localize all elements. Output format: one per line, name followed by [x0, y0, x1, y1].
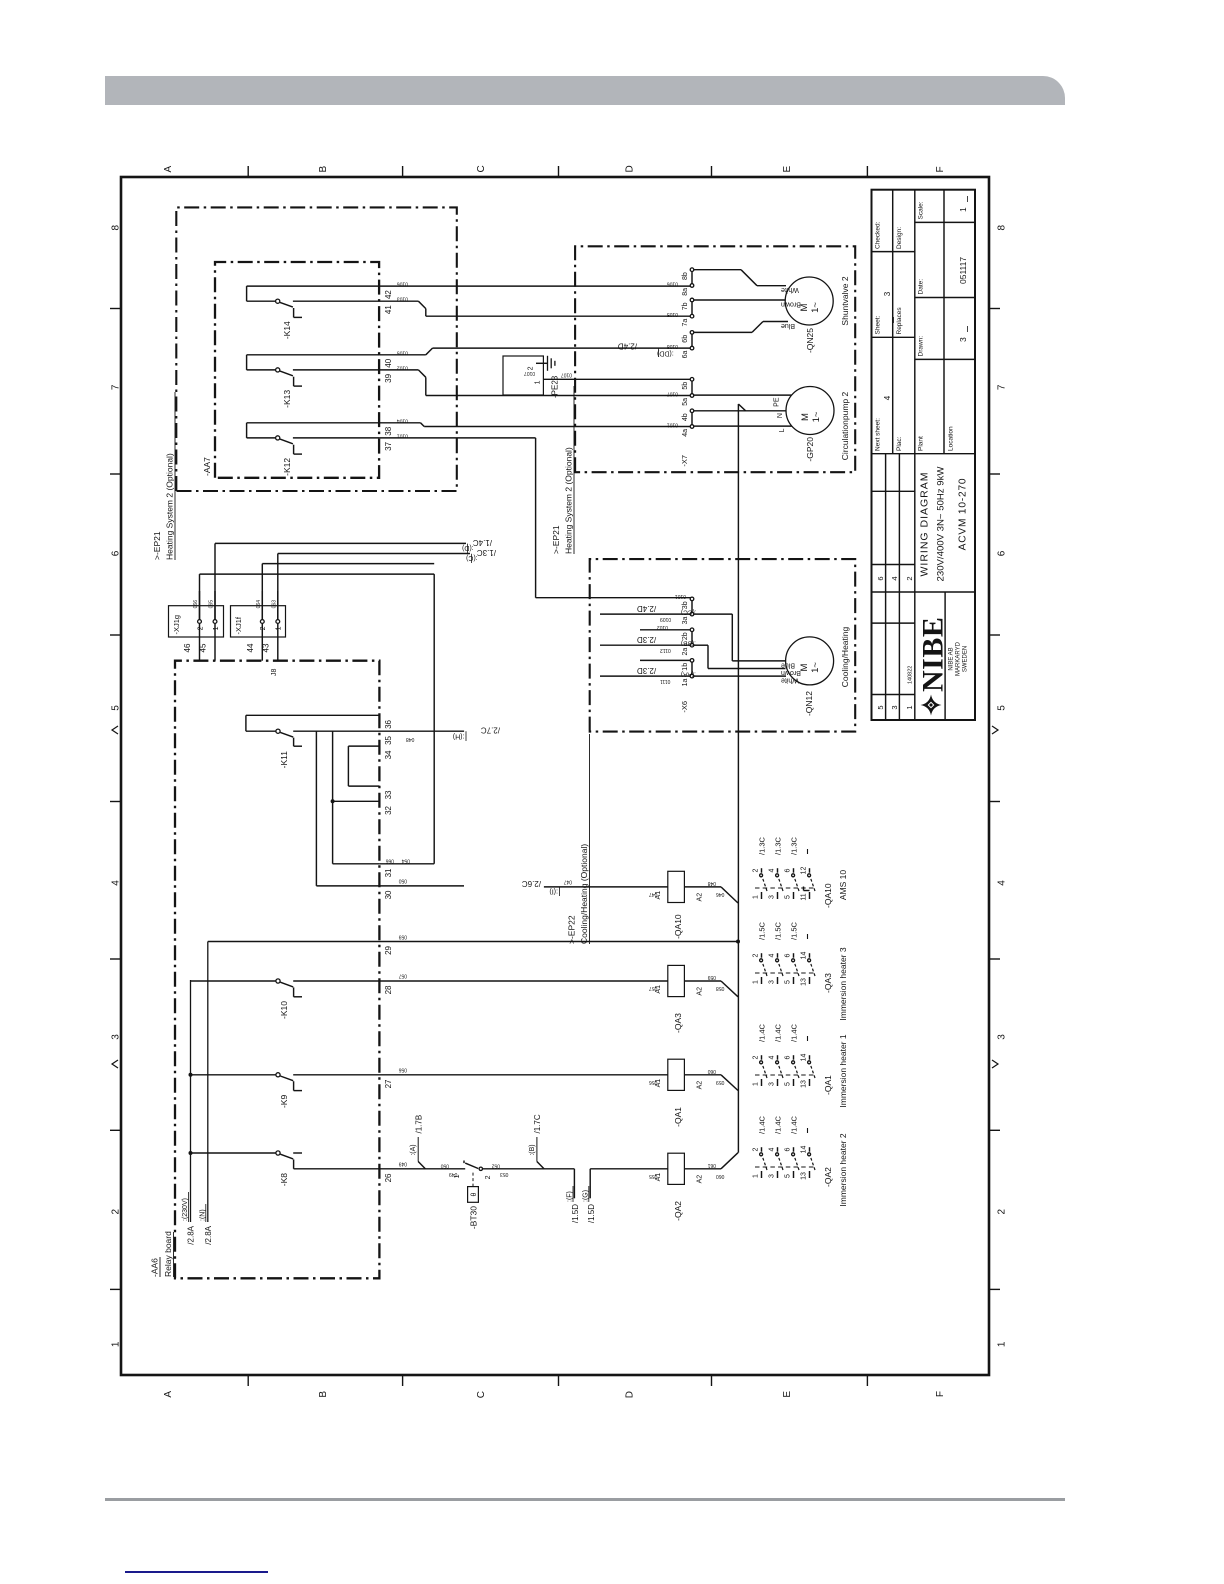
svg-text:1: 1: [752, 895, 759, 899]
svg-text:060: 060: [707, 1068, 716, 1074]
svg-text:4: 4: [768, 1055, 775, 1059]
svg-text:048: 048: [406, 736, 415, 742]
contactor coil -QA3: [668, 965, 685, 996]
svg-text:/1.3C: /1.3C: [757, 836, 766, 855]
contactor coil -QA2: [668, 1153, 685, 1184]
svg-text:051117: 051117: [958, 257, 968, 284]
wire 26 end reference :(F) /1.5D: [573, 1169, 575, 1199]
svg-text:Immersion heater 2: Immersion heater 2: [838, 1133, 848, 1206]
svg-text:4a: 4a: [682, 429, 689, 437]
svg-text:2: 2: [111, 1208, 122, 1214]
svg-text:Cooling/Heating: Cooling/Heating: [840, 626, 850, 687]
terminal pin pair 5a/5b: [690, 394, 694, 398]
svg-text:1: 1: [997, 1341, 1008, 1347]
svg-text:27: 27: [384, 1079, 393, 1088]
svg-text:230V/400V 3N~ 50Hz 9kW: 230V/400V 3N~ 50Hz 9kW: [936, 466, 947, 582]
svg-text:5: 5: [111, 705, 122, 711]
wire :(G) /1.5D to contactor QA2: [589, 1169, 591, 1199]
svg-text:4: 4: [883, 395, 892, 400]
svg-text:PE: PE: [774, 397, 781, 407]
wire 30 down and out of board: [316, 885, 464, 887]
svg-text:θ: θ: [471, 1192, 478, 1196]
svg-text:-QA10: -QA10: [673, 914, 683, 939]
svg-text:M: M: [800, 413, 811, 421]
svg-text:A2: A2: [697, 893, 704, 902]
terminal pin pair 3a/3b: [690, 612, 694, 616]
svg-text:/1.4C: /1.4C: [789, 1115, 798, 1134]
svg-text:Design:: Design:: [896, 227, 903, 249]
svg-text:/1.5C: /1.5C: [789, 921, 798, 940]
svg-text:/1.7B: /1.7B: [415, 1115, 424, 1134]
svg-text:063: 063: [271, 600, 277, 609]
svg-text:6: 6: [997, 550, 1008, 556]
svg-text:2: 2: [485, 1175, 492, 1179]
svg-text:1a: 1a: [682, 679, 689, 687]
svg-text:0101: 0101: [675, 593, 686, 599]
svg-text:-QA1: -QA1: [823, 1075, 833, 1095]
svg-text::(BB): :(BB): [681, 640, 696, 647]
svg-text:7: 7: [997, 384, 1008, 390]
svg-text::(A): :(A): [410, 1144, 417, 1155]
svg-text:44: 44: [246, 643, 255, 652]
svg-text:Blue: Blue: [781, 662, 795, 669]
svg-text:/1.5C: /1.5C: [757, 921, 766, 940]
svg-text:29: 29: [384, 945, 393, 954]
svg-text:0105: 0105: [667, 311, 678, 317]
svg-text:Heating System 2 (Optional): Heating System 2 (Optional): [165, 453, 175, 560]
wire XJ1f pin2 down: [261, 564, 263, 620]
svg-text:36: 36: [384, 719, 393, 728]
svg-text:-XJ1f: -XJ1f: [234, 616, 243, 634]
svg-text:0108: 0108: [667, 343, 678, 349]
svg-text:3: 3: [768, 980, 775, 984]
wire 34: [348, 745, 379, 747]
svg-text:5a: 5a: [682, 398, 689, 406]
-QA10 contact 11-12: [809, 892, 811, 899]
svg-text:0111: 0111: [660, 678, 671, 684]
svg-text:F: F: [935, 1391, 946, 1397]
wire 38 to X7 terminal 4a: [379, 422, 420, 424]
svg-text:-X7: -X7: [680, 455, 689, 467]
svg-text:-K9: -K9: [279, 1095, 289, 1109]
svg-text:066: 066: [193, 600, 199, 609]
thermostat BT30 sensor box: [468, 1187, 479, 1203]
svg-text:31: 31: [384, 868, 393, 877]
svg-text:1: 1: [213, 626, 220, 630]
wire 31 and inner link: [333, 863, 380, 865]
svg-text:Plant: Plant: [918, 436, 925, 451]
svg-text:2: 2: [528, 366, 535, 370]
contactor coil -QA1: [668, 1059, 685, 1090]
relay contact -K8: [191, 1152, 276, 1154]
svg-text:Sheet:: Sheet:: [875, 316, 882, 335]
relay contact -K10: [191, 980, 276, 982]
svg-text:2: 2: [997, 1208, 1008, 1214]
svg-text:35: 35: [384, 735, 393, 744]
svg-text:E: E: [782, 166, 793, 173]
-QA1 contact 5-6: [793, 1079, 795, 1086]
svg-text:Location: Location: [948, 426, 955, 451]
svg-text:Drawn:: Drawn:: [918, 336, 925, 357]
svg-text:White: White: [781, 286, 799, 293]
svg-text:A: A: [163, 1391, 174, 1398]
svg-text:050: 050: [440, 1163, 449, 1169]
svg-text:14: 14: [800, 1054, 807, 1062]
svg-text:7: 7: [111, 384, 122, 390]
svg-text:11: 11: [800, 893, 807, 900]
QA2 A2 drop with bevel: [684, 1168, 721, 1170]
svg-text:-K8: -K8: [279, 1173, 289, 1187]
svg-text:>-EP21: >-EP21: [152, 531, 162, 560]
svg-text:2: 2: [905, 576, 914, 580]
wire 26 from K8 to BT30: [294, 1168, 466, 1170]
svg-text:061: 061: [707, 1162, 716, 1168]
svg-text:2: 2: [197, 626, 204, 630]
svg-text:1: 1: [752, 1082, 759, 1086]
svg-text:Checked:: Checked:: [875, 221, 882, 249]
svg-text:41: 41: [384, 305, 393, 314]
svg-text:4b: 4b: [682, 413, 689, 421]
svg-text:-K12: -K12: [282, 458, 292, 476]
relay board AA6 dash-dot enclosure: [175, 661, 379, 1279]
svg-text:/1.3C: /1.3C: [789, 836, 798, 855]
svg-text:1: 1: [905, 705, 914, 709]
QA10 A2 drop with bevel: [684, 886, 721, 888]
svg-text:-QA3: -QA3: [823, 973, 833, 993]
terminal pin pair 2a/2b: [690, 643, 694, 647]
svg-text:46: 46: [183, 643, 192, 652]
svg-text:J8: J8: [271, 669, 278, 677]
svg-text:-QA2: -QA2: [823, 1167, 833, 1187]
aux contact group -QA1: [755, 1074, 816, 1076]
svg-text:B: B: [318, 1391, 329, 1398]
relay contact -K12: [247, 422, 380, 424]
svg-text:/1.5D: /1.5D: [571, 1204, 580, 1223]
svg-text:-AA6: -AA6: [150, 1258, 160, 1277]
svg-text:5: 5: [876, 705, 885, 709]
svg-text:/1.7C: /1.7C: [533, 1114, 542, 1133]
svg-text:/2.8A: /2.8A: [204, 1225, 213, 1244]
svg-text:6: 6: [784, 953, 791, 957]
svg-text:-BT30: -BT30: [469, 1206, 479, 1229]
fold marks: [992, 1060, 998, 1068]
svg-text:42: 42: [384, 290, 393, 299]
svg-text:A2: A2: [697, 1081, 704, 1090]
EP22 cooling/heating dash-dot enclosure: [590, 559, 856, 732]
svg-text:8: 8: [997, 224, 1008, 230]
svg-text:-K10: -K10: [279, 1001, 289, 1019]
page header grey bar: [105, 76, 1065, 105]
junction dot A2 return at wire 29: [736, 940, 740, 944]
svg-text:L: L: [779, 428, 786, 432]
svg-text:6a: 6a: [682, 351, 689, 359]
A2 return wire to N and pump: [737, 404, 739, 1153]
svg-text:065: 065: [209, 600, 215, 609]
NIBE logo: [921, 695, 942, 716]
svg-text:059: 059: [716, 1079, 725, 1085]
svg-text:2b: 2b: [682, 632, 689, 640]
wire QN25 white from X7 8b: [694, 269, 741, 271]
-QA1 contact 13-14: [809, 1079, 811, 1086]
svg-text:1~: 1~: [810, 302, 821, 313]
svg-text:3: 3: [958, 337, 968, 342]
svg-text:6: 6: [784, 1147, 791, 1151]
title block outline: [872, 190, 976, 720]
-QA2 contact 1-2: [761, 1171, 763, 1178]
svg-text:4: 4: [768, 868, 775, 872]
svg-text:0102: 0102: [657, 624, 668, 630]
X6 1b 2b wires up: [640, 659, 690, 661]
X6 3a wire up with reference :(CC) /2.4D: [600, 613, 690, 615]
svg-text:2: 2: [752, 953, 759, 957]
drawing frame border: [121, 177, 989, 1375]
svg-text::(DD): :(DD): [657, 349, 674, 356]
svg-text:/1.5C: /1.5C: [773, 921, 782, 940]
svg-text:-QA1: -QA1: [673, 1107, 683, 1127]
svg-text:-GP20: -GP20: [805, 437, 815, 462]
-QA3 contact 5-6: [793, 977, 795, 984]
svg-text:14: 14: [800, 952, 807, 960]
-QA2 contact 3-4: [777, 1171, 779, 1178]
svg-text::(G): :(G): [582, 1190, 589, 1202]
junction dot K9 input on 230V bus: [189, 1073, 193, 1077]
svg-text:066: 066: [385, 858, 394, 864]
svg-text::(B): :(B): [529, 1144, 536, 1155]
svg-text:C: C: [476, 1391, 487, 1398]
svg-text:39: 39: [384, 373, 393, 382]
-QA10 contact 5-6: [793, 892, 795, 899]
svg-text:A: A: [163, 166, 174, 173]
svg-text:A2: A2: [697, 1175, 704, 1184]
svg-text:-AA7: -AA7: [202, 457, 212, 476]
svg-text:1: 1: [276, 626, 283, 630]
svg-text:4: 4: [768, 953, 775, 957]
terminal pin pair 8a/8b: [690, 284, 694, 288]
terminal 43 wire: [277, 623, 279, 660]
svg-text:/1.4C: /1.4C: [773, 1115, 782, 1134]
relay contact -K14: [247, 285, 380, 287]
wire 31 continues below board to XJ1g: [379, 863, 434, 865]
wire 29 N feed: [208, 941, 738, 943]
-QA3 contact 13-14: [809, 977, 811, 984]
svg-text::(AA): :(AA): [681, 671, 696, 678]
-QA2 contact 13-14: [809, 1171, 811, 1178]
svg-text::(H): :(H): [453, 733, 465, 740]
svg-text:/2.6C: /2.6C: [522, 879, 541, 888]
svg-text:047: 047: [649, 891, 658, 897]
wire QN12 blue from X6 3a: [694, 613, 733, 615]
svg-text:5: 5: [784, 1174, 791, 1178]
svg-text:Brown: Brown: [781, 669, 801, 676]
svg-text:/2.4D: /2.4D: [637, 604, 656, 613]
svg-text:WIRING DIAGRAM: WIRING DIAGRAM: [919, 472, 931, 577]
svg-text:056: 056: [649, 1079, 658, 1085]
svg-text:3b: 3b: [682, 601, 689, 609]
svg-text:060: 060: [716, 1173, 725, 1179]
svg-text:048: 048: [707, 880, 716, 886]
svg-text:N: N: [777, 413, 784, 418]
svg-text:3: 3: [111, 1034, 122, 1040]
svg-text:D: D: [625, 1391, 636, 1398]
svg-text:057: 057: [649, 985, 658, 991]
svg-text:B: B: [318, 166, 329, 173]
svg-text:26: 26: [384, 1173, 393, 1182]
svg-text:37: 37: [384, 441, 393, 450]
svg-text:050: 050: [398, 878, 407, 884]
svg-text:0107: 0107: [524, 370, 535, 376]
tap :(B) /1.7C on wire 26: [537, 1162, 544, 1169]
-QA1 contact 3-4: [777, 1079, 779, 1086]
relay contact K11 with feed from wire 36: [246, 714, 380, 716]
wire XJ1g pin2 to wire 31 junction: [199, 574, 201, 620]
svg-text:2: 2: [260, 626, 267, 630]
svg-text:0107: 0107: [561, 372, 572, 378]
svg-text:-K11: -K11: [279, 751, 289, 769]
cooling/heating valve motor QN12: [786, 637, 834, 685]
title block grid lines: [885, 454, 887, 720]
svg-text:AMS 10: AMS 10: [838, 870, 848, 901]
wire 32: [333, 800, 380, 802]
aux contact group -QA3: [755, 972, 816, 974]
svg-text:3: 3: [997, 1034, 1008, 1040]
QA10 contact 11 bracket: [804, 890, 810, 892]
svg-text:3: 3: [768, 1174, 775, 1178]
svg-text:Immersion heater 3: Immersion heater 3: [838, 947, 848, 1020]
svg-text:0106: 0106: [667, 281, 678, 287]
svg-text:/1.4C: /1.4C: [789, 1023, 798, 1042]
svg-text:0109: 0109: [660, 616, 671, 622]
svg-text:Immersion heater 1: Immersion heater 1: [838, 1034, 848, 1107]
contactor coil -QA10: [668, 871, 685, 902]
svg-text:4: 4: [890, 576, 899, 580]
wire 40 to X7 terminal 6a with jog: [379, 354, 426, 356]
svg-text:-K13: -K13: [282, 390, 292, 408]
svg-text:Brown: Brown: [781, 301, 801, 308]
svg-text:32: 32: [384, 805, 393, 814]
svg-text:7a: 7a: [682, 319, 689, 327]
tap :(A) /1.7B on wire 26: [418, 1162, 425, 1169]
svg-text:Blue: Blue: [781, 322, 795, 329]
QA1 A2 drop with bevel: [684, 1074, 721, 1076]
svg-text:053: 053: [500, 1171, 509, 1177]
wire QN25 blue from X7 6b: [694, 331, 752, 333]
svg-text:6: 6: [784, 868, 791, 872]
svg-text:2: 2: [752, 1055, 759, 1059]
svg-text:054: 054: [401, 858, 410, 864]
terminal 45 wire: [214, 623, 216, 660]
svg-text::(F): :(F): [567, 1191, 574, 1202]
svg-text:8: 8: [111, 224, 122, 230]
page footer grey rule: [105, 1498, 1065, 1501]
svg-text:056: 056: [398, 1067, 407, 1073]
svg-text:E: E: [782, 1391, 793, 1398]
svg-text:059: 059: [707, 974, 716, 980]
svg-text:>-EP22: >-EP22: [567, 915, 577, 944]
svg-text:3: 3: [890, 705, 899, 709]
wire 30 lower segment to contactor QA10: [544, 886, 668, 888]
wire GP20 PE from X7 5a: [694, 394, 792, 396]
svg-text:13: 13: [800, 1172, 807, 1180]
svg-text:ACVM 10-270: ACVM 10-270: [958, 478, 969, 551]
svg-text:3: 3: [883, 291, 892, 296]
svg-text:140822: 140822: [908, 666, 914, 684]
-QA10 contact 3-4: [777, 892, 779, 899]
svg-text:1~: 1~: [810, 662, 821, 673]
svg-text:SWEDEN: SWEDEN: [963, 646, 969, 672]
X6 2a wire up with reference :(BB) /2.3D: [600, 644, 690, 646]
svg-text:Date:: Date:: [918, 279, 925, 295]
svg-text:40: 40: [384, 358, 393, 367]
svg-text:Plac:: Plac:: [896, 436, 903, 451]
svg-text:MARKARYD: MARKARYD: [956, 641, 962, 676]
terminal 44 wire: [261, 623, 263, 660]
svg-text:/1.4C: /1.4C: [473, 538, 492, 547]
relay contact -K9: [191, 1074, 276, 1076]
svg-text:-QN25: -QN25: [805, 328, 815, 353]
svg-text:1~: 1~: [811, 411, 822, 422]
wire QN12 brown from X6 2a: [694, 644, 708, 646]
wire XJ1f pin1 to reference :(C) /1.3C: [277, 554, 279, 620]
svg-text:052: 052: [491, 1163, 500, 1169]
svg-text:047: 047: [563, 879, 572, 885]
svg-text:8a: 8a: [682, 288, 689, 296]
svg-text:5: 5: [997, 705, 1008, 711]
svg-text::(I): :(I): [549, 888, 558, 895]
svg-text:6: 6: [876, 576, 885, 580]
svg-text:33: 33: [384, 790, 393, 799]
svg-text:5: 5: [784, 895, 791, 899]
svg-text:/2.8A: /2.8A: [187, 1225, 196, 1244]
connector XJ1g: [169, 606, 224, 637]
frame column ticks and numbers (top and bottom edges): [989, 1288, 1000, 1290]
terminal pin pair 1a/1b: [690, 674, 694, 678]
relay board AA7 dash-dot enclosure: [215, 262, 379, 478]
svg-text:6: 6: [111, 550, 122, 556]
junction dot K8 input on 230V bus: [189, 1151, 193, 1155]
svg-text:/1.3C: /1.3C: [477, 548, 496, 557]
svg-text:NIBE AB: NIBE AB: [949, 647, 955, 670]
svg-text:-QA10: -QA10: [823, 883, 833, 908]
svg-text:0112: 0112: [660, 647, 671, 653]
svg-text:2a: 2a: [682, 648, 689, 656]
svg-text:Shuntvalve 2: Shuntvalve 2: [840, 276, 850, 325]
svg-text:5: 5: [784, 1082, 791, 1086]
-QA3 contact 1-2: [761, 977, 763, 984]
svg-text:5b: 5b: [682, 382, 689, 390]
svg-text:Circulationpump 2: Circulationpump 2: [840, 391, 850, 460]
svg-text:/2.3D: /2.3D: [637, 666, 656, 675]
svg-text:3: 3: [768, 895, 775, 899]
wire 41 to X7 terminal 7a with jog: [379, 300, 418, 302]
wire XJ1g pin1 to reference :(D) /1.4C: [214, 543, 216, 619]
svg-text:30: 30: [384, 890, 393, 899]
terminal pin pair 7a/7b: [690, 314, 694, 318]
svg-text:34: 34: [384, 750, 393, 759]
svg-text:049: 049: [449, 1171, 458, 1177]
svg-text:5: 5: [784, 980, 791, 984]
svg-text:Cooling/Heating (Optional): Cooling/Heating (Optional): [579, 844, 589, 944]
svg-text:/2.7C: /2.7C: [481, 726, 500, 735]
svg-text:058: 058: [716, 985, 725, 991]
-QA10 contact 1-2: [761, 892, 763, 899]
svg-text:1: 1: [111, 1341, 122, 1347]
svg-text:1: 1: [752, 980, 759, 984]
thermostat BT30 contact on wire 26: [463, 1161, 465, 1164]
svg-text:12: 12: [800, 867, 807, 875]
QA3 A2 drop with bevel: [684, 980, 721, 982]
node N supply bus: [207, 942, 209, 1223]
svg-text:1: 1: [958, 207, 968, 212]
